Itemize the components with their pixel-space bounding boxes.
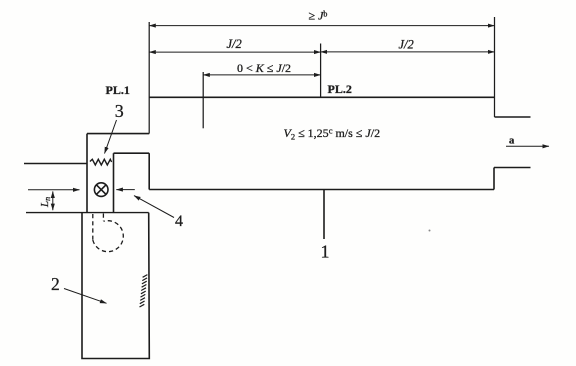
fan symbol X bbox=[97, 185, 106, 194]
leader 2 bbox=[64, 289, 107, 304]
flow arrow a bbox=[506, 145, 549, 147]
hatch marks bbox=[140, 275, 148, 307]
screen zigzag item 3 bbox=[90, 159, 112, 165]
inlet top wall bbox=[24, 163, 87, 165]
dimension line 0<K<=J/2 bbox=[203, 74, 320, 76]
svg-text:J/2: J/2 bbox=[227, 37, 242, 51]
svg-text:3: 3 bbox=[115, 101, 124, 121]
svg-text:V2 ≤ 1,25c m/s ≤ J/2: V2 ≤ 1,25c m/s ≤ J/2 bbox=[284, 126, 381, 142]
dimension line >= Jb bbox=[149, 25, 494, 27]
svg-text:≥ Jb: ≥ Jb bbox=[309, 9, 328, 23]
extension line K plane bbox=[202, 72, 204, 128]
extension line right bbox=[494, 17, 496, 117]
fan box right wall bbox=[113, 153, 115, 212]
fan box top bbox=[87, 133, 149, 135]
svg-text:PL.1: PL.1 bbox=[106, 83, 130, 97]
width arrow right of fan box bbox=[116, 189, 135, 191]
svg-text:4: 4 bbox=[175, 213, 183, 230]
dimension line J/2 left bbox=[149, 51, 320, 53]
svg-text:a: a bbox=[509, 136, 515, 147]
inlet bottom wall / chamber top bbox=[26, 212, 149, 214]
chamber outline bbox=[82, 213, 149, 359]
duct top wall bbox=[149, 96, 494, 98]
svg-text:0 < K ≤ J/2: 0 < K ≤ J/2 bbox=[237, 61, 291, 75]
probe 1 stem bbox=[323, 190, 325, 240]
extension line middle (PL.2 plane) bbox=[320, 44, 322, 98]
duct outlet bottom step vertical bbox=[493, 168, 495, 190]
duct outlet bottom step horizontal bbox=[494, 167, 531, 169]
Ln dimension arrow bbox=[52, 191, 54, 210]
leader 3 bbox=[105, 120, 117, 154]
step vertical to duct bottom bbox=[148, 153, 150, 189]
speck bbox=[429, 230, 431, 232]
fan volute dashed bbox=[92, 214, 94, 240]
extension line left / duct left upper wall bbox=[148, 22, 150, 134]
svg-text:PL.2: PL.2 bbox=[328, 82, 352, 96]
fan symbol circle bbox=[94, 183, 108, 197]
leader 4 bbox=[134, 196, 174, 218]
fan box left wall bbox=[86, 134, 88, 213]
svg-text:2: 2 bbox=[51, 274, 60, 294]
svg-text:J/2: J/2 bbox=[399, 38, 414, 52]
passage bottom wall bbox=[114, 152, 150, 154]
duct bottom wall bbox=[149, 189, 494, 191]
duct outlet top step bbox=[495, 116, 531, 118]
svg-text:1: 1 bbox=[321, 242, 330, 262]
inlet flow arrow bbox=[28, 189, 80, 191]
svg-text:Ln: Ln bbox=[39, 197, 52, 208]
dimension line J/2 right bbox=[321, 51, 495, 53]
